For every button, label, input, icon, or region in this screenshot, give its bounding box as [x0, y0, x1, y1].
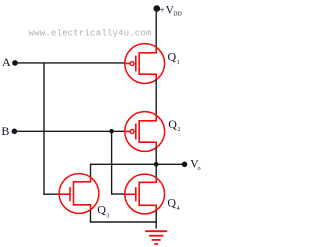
svg-text:www.electrically4u.com: www.electrically4u.com — [29, 27, 152, 38]
node +VDD terminal dot — [154, 5, 161, 12]
node Vo terminal dot — [182, 162, 188, 168]
node B terminal dot — [12, 129, 18, 135]
ground — [145, 231, 167, 244]
svg-text:4: 4 — [177, 205, 180, 212]
svg-text:DD: DD — [173, 11, 182, 17]
wire Q1 source to Q2 drain — [155, 80, 157, 116]
wire input A horizontal — [15, 62, 125, 64]
wire B branch vertical to Q4 — [111, 131, 113, 194]
transistor Q4 (NMOS, gate B) — [125, 174, 165, 214]
svg-text:B: B — [1, 124, 9, 138]
svg-text:1: 1 — [177, 59, 180, 66]
wire Q3 source vertical stub — [90, 210, 92, 223]
wire Q3 source to ground rail horizontal — [90, 221, 157, 223]
wire Q2 source down through output node to Q4 drain — [155, 148, 157, 179]
transistor Q3 (NMOS, gate A) — [59, 174, 99, 214]
svg-text:Q: Q — [167, 196, 176, 210]
svg-text:+: + — [159, 6, 164, 16]
wire A branch vertical to Q3 — [43, 63, 45, 195]
node output junction dot — [154, 162, 159, 167]
transistor Q1 (PMOS, gate A) — [125, 44, 165, 84]
svg-text:A: A — [2, 55, 11, 69]
node A terminal dot — [12, 60, 18, 66]
wire B branch horizontal to Q4 gate — [111, 193, 126, 195]
svg-text:Q: Q — [168, 117, 177, 131]
svg-text:Q: Q — [168, 50, 177, 64]
wire Q3 drain vertical stub — [90, 164, 92, 178]
wire output node horizontal (Q3 drain to Vo terminal) — [91, 163, 185, 165]
svg-text:o: o — [198, 165, 201, 172]
wire Q4 source down to ground — [155, 210, 157, 229]
svg-text:Q: Q — [97, 203, 106, 217]
wire input B horizontal — [14, 130, 125, 132]
wire VDD rail to Q1 drain — [155, 9, 157, 48]
node B branch junction dot — [109, 129, 114, 134]
svg-text:2: 2 — [177, 126, 180, 133]
transistor Q2 (PMOS, gate B) — [125, 112, 165, 152]
svg-text:3: 3 — [106, 213, 109, 220]
wire A branch horizontal to Q3 gate — [43, 193, 59, 195]
